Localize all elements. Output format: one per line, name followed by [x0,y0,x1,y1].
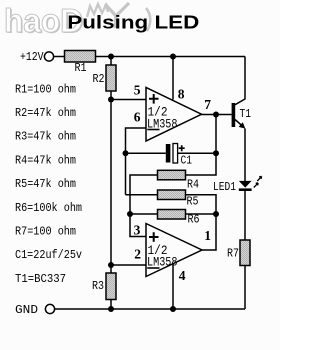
watermark haoD logo [4,2,150,40]
svg-text:R5=47k ohm: R5=47k ohm [15,177,76,191]
wire left column R2 to R3 [110,91,112,273]
node pin2 junction [108,262,114,268]
LED1 light arrow 2 [254,183,258,188]
wire R3 to ground rail [110,300,112,310]
resistor R2 [106,65,116,91]
parts list text column [15,82,82,286]
node top rail / R2 [108,54,114,60]
svg-text:C1=22uf/25v: C1=22uf/25v [15,248,82,262]
transistor T1 base bar [232,103,236,127]
resistor R4 [158,170,186,180]
transistor T1 emitter arrow [239,122,246,128]
resistor R7 [240,240,250,266]
node R6 right junction [213,211,219,217]
svg-text:R2=47k ohm: R2=47k ohm [15,106,76,120]
resistor R3 [106,273,116,300]
svg-text:R7: R7 [227,247,239,261]
svg-text:T1=BC337: T1=BC337 [15,272,66,286]
wire terminal to R1 [54,56,65,58]
node top rail / pin8 [170,54,176,60]
svg-text:2: 2 [134,246,141,261]
resistor R5 [158,190,186,200]
svg-text:R4: R4 [187,178,199,192]
transistor T1 collector wire [235,57,245,105]
LED1 light arrow 1 [257,176,261,181]
node C1 left junction [123,150,129,156]
wire emitter to LED [244,129,246,182]
capacitor C1 polarity plus [179,145,185,151]
op-amp U1A minus input mark [147,129,159,131]
svg-text:5: 5 [134,82,141,97]
wire ground rail [55,308,245,310]
svg-text:R3: R3 [92,279,104,293]
svg-text:3: 3 [134,222,141,237]
svg-text:Pulsing LED: Pulsing LED [67,12,199,33]
wire C1 right [178,152,216,154]
svg-text:C1: C1 [181,154,193,168]
op-amp U1B triangle [146,224,202,277]
wire R7 to ground rail [244,266,246,310]
wire LED to R7 [244,191,246,240]
wire pin 2 [111,264,146,266]
node R6 left junction [127,211,133,217]
svg-text:R6=100k ohm: R6=100k ohm [15,201,82,215]
svg-text:R7=100 ohm: R7=100 ohm [15,225,76,239]
resistor R6 [158,210,186,220]
svg-text:T1: T1 [240,107,252,121]
svg-text:LED1: LED1 [213,180,236,194]
wire C1 left [126,152,166,154]
wire pin7 down to R4 [186,115,217,176]
svg-text:R5: R5 [187,195,199,209]
node C1 right junction [213,150,219,156]
svg-text:R4=47k ohm: R4=47k ohm [15,153,76,167]
node pin4 ground [170,306,176,312]
wire pin 8 [172,57,174,100]
op-amp U1A triangle [146,88,202,142]
op-amp U1B minus input mark [147,267,159,269]
wire R5 left [126,194,158,196]
LED1 anode triangle [239,181,252,188]
svg-text:4: 4 [179,268,186,283]
wire R5 right down to pin1 [186,195,217,250]
wire R6 right [186,213,217,215]
wire R6 left [130,213,158,215]
svg-text:6: 6 [134,110,141,125]
wire R4 left to pin3 column [130,175,158,237]
op-amp U1B plus input mark [149,232,159,242]
wire pin 6 [126,128,147,195]
GND terminal [45,304,54,313]
wire pin 4 [172,264,174,310]
capacitor C1 left plate [166,144,171,163]
+12V terminal [44,52,53,61]
wire top rail [96,56,246,58]
wire rail to R2 [110,57,112,66]
svg-text:R2: R2 [93,72,105,86]
svg-text:GND: GND [15,303,38,317]
op-amp U1A plus input mark [149,94,159,104]
svg-text:7: 7 [204,97,211,112]
node R3 ground [108,306,114,312]
svg-text:R1=100 ohm: R1=100 ohm [15,82,76,96]
capacitor C1 right plate [173,144,178,164]
node pin5 junction [108,97,114,103]
node pin7 / base [213,112,219,118]
svg-text:+12V: +12V [20,50,44,64]
svg-text:1: 1 [204,228,211,243]
svg-text:R1: R1 [75,61,87,75]
wire pin 5 [111,99,146,101]
LED1 cathode bar [239,188,252,191]
transistor T1 emitter wire [235,120,242,126]
wire pin 7 output [202,114,232,116]
resistor R1 [65,51,96,63]
svg-text:R3=47k ohm: R3=47k ohm [15,130,76,144]
svg-text:8: 8 [178,86,185,101]
